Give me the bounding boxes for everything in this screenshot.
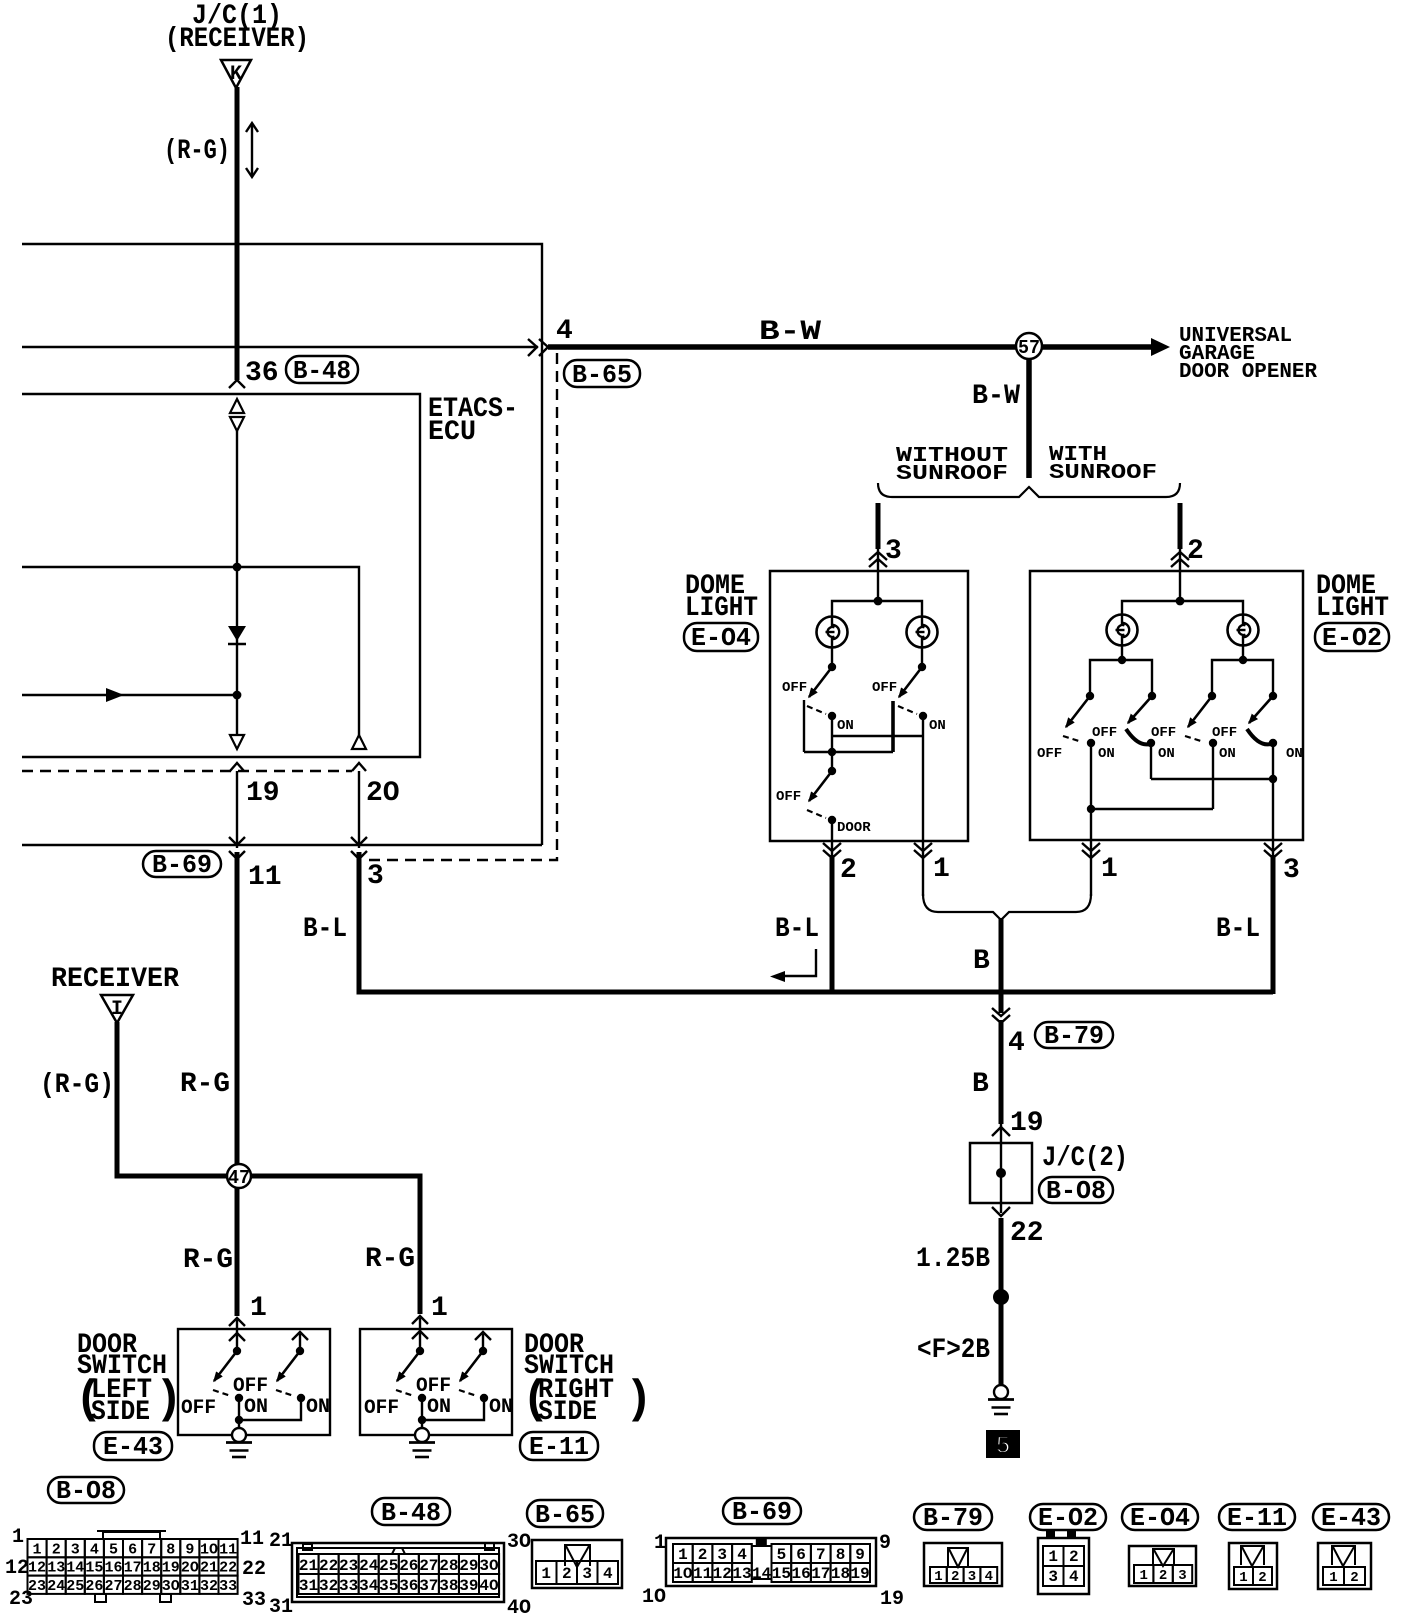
connector B-65 label [527, 1500, 603, 1527]
entry chevrons pin 3 E-04 [869, 552, 887, 567]
svg-text:1: 1 [32, 1541, 41, 1558]
wire lamp left to contact [831, 646, 833, 667]
wire R-G thick vertical from J/C(1) [235, 87, 240, 380]
svg-text:19: 19 [880, 1588, 904, 1611]
bracket joining pin1 wires [923, 894, 1091, 920]
svg-text:33: 33 [242, 1589, 266, 1612]
connector B-69 label [723, 1498, 801, 1524]
svg-text:E-O2: E-O2 [1038, 1503, 1098, 1533]
svg-text:B: B [973, 946, 990, 977]
switch arm second pole [277, 1351, 300, 1381]
direction elbow arrow [784, 949, 816, 976]
svg-text:1: 1 [678, 1546, 688, 1564]
svg-text:31: 31 [269, 1596, 293, 1616]
svg-text:): ) [625, 1374, 653, 1426]
exit chevrons pin 2 E-04 [823, 843, 841, 858]
svg-text:2: 2 [52, 1541, 61, 1558]
svg-text:1: 1 [250, 1293, 267, 1324]
svg-text:B-O8: B-O8 [56, 1476, 116, 1506]
door switch contact [828, 767, 836, 775]
connector E-02 body [1038, 1538, 1089, 1594]
svg-text:31: 31 [181, 1578, 199, 1595]
bidirectional arrow symbol [251, 124, 253, 176]
svg-text:3O: 3O [479, 1557, 499, 1575]
svg-text:OFF: OFF [1151, 725, 1176, 741]
svg-text:57: 57 [1018, 337, 1040, 359]
connector B-48 label [372, 1498, 450, 1525]
svg-text:18: 18 [831, 1565, 850, 1583]
svg-text:21: 21 [269, 1530, 293, 1553]
svg-text:B-79: B-79 [1044, 1021, 1104, 1051]
svg-text:7: 7 [147, 1541, 156, 1558]
diode D1 [228, 626, 246, 641]
ETACS output triangle up at pin 20 [352, 735, 366, 749]
svg-text:B-48: B-48 [293, 356, 351, 386]
connector I triangle receiver [101, 995, 133, 1023]
connector E-02 label [1030, 1504, 1106, 1530]
node splice dot [993, 1289, 1009, 1305]
svg-text:ON: ON [1158, 746, 1175, 762]
svg-text:12: 12 [28, 1560, 46, 1577]
node 47 splice circle [227, 1164, 251, 1188]
wire B down to J/C(2) [999, 1020, 1004, 1124]
svg-text:3: 3 [1283, 855, 1300, 886]
svg-text:SIDE: SIDE [538, 1397, 597, 1428]
lamp bulb right E-04 [907, 617, 938, 648]
node ON contact left [828, 712, 836, 720]
svg-text:19: 19 [246, 778, 280, 809]
svg-text:K: K [230, 63, 242, 86]
svg-text:6: 6 [796, 1546, 806, 1564]
svg-text:1: 1 [934, 1569, 942, 1585]
svg-text:36: 36 [399, 1577, 418, 1595]
svg-text:OFF: OFF [181, 1397, 216, 1420]
svg-text:47: 47 [228, 1167, 250, 1189]
wire B-W thick to garage door opener [548, 344, 1155, 350]
wire R-G thick down from pin 11 [235, 852, 240, 1316]
svg-text:ON: ON [1098, 746, 1115, 762]
connector label E-02 [1315, 623, 1389, 651]
svg-text:I: I [111, 998, 123, 1021]
connector E-43 label [1313, 1504, 1389, 1530]
connector E-11 body [1229, 1543, 1277, 1589]
svg-text:B-48: B-48 [381, 1498, 441, 1528]
svg-text:24: 24 [47, 1578, 65, 1595]
svg-text:1: 1 [933, 854, 950, 885]
wire lamp right to contact [921, 646, 923, 667]
svg-text:25: 25 [379, 1557, 398, 1575]
svg-text:1O: 1O [673, 1565, 693, 1583]
node ON contact right [919, 712, 927, 720]
exit chevron pin 22 [992, 1207, 1010, 1216]
svg-text:ON: ON [244, 1396, 268, 1419]
switch arm S1 [1066, 696, 1090, 727]
svg-text:OFF: OFF [776, 789, 801, 805]
svg-text:4: 4 [737, 1546, 747, 1564]
svg-text:34: 34 [359, 1577, 379, 1595]
svg-text:19: 19 [1010, 1108, 1044, 1139]
node DOOR contact [828, 816, 836, 824]
page reference box 5 [986, 1430, 1020, 1458]
svg-text:22: 22 [319, 1557, 338, 1575]
node 57 splice circle [1016, 333, 1042, 359]
svg-text:3: 3 [582, 1565, 592, 1583]
chevron at ETACS pin 36 [229, 380, 245, 388]
dome light E-02 box [1030, 571, 1303, 840]
svg-text:14: 14 [752, 1565, 772, 1583]
svg-text:11: 11 [219, 1541, 237, 1558]
svg-text:1O: 1O [642, 1586, 666, 1609]
connector label E-43 [94, 1432, 172, 1460]
ground symbol [988, 1385, 1014, 1414]
entry chevrons pin 2 E-02 [1171, 552, 1189, 567]
switch arm main [214, 1351, 237, 1381]
connector B-08 label [48, 1477, 124, 1503]
svg-text:ON: ON [1286, 746, 1303, 762]
svg-text:4: 4 [556, 316, 573, 347]
svg-text:ON: ON [427, 1396, 451, 1419]
svg-text:27: 27 [104, 1578, 122, 1595]
svg-text:DOOR OPENER: DOOR OPENER [1179, 361, 1317, 384]
dome light E-04 box [770, 571, 968, 841]
svg-text:E-O2: E-O2 [1322, 623, 1382, 653]
wire B-W thick vertical drop [1026, 347, 1032, 478]
wire horizontal to B-65 pin 4 [22, 346, 538, 348]
wire to ground [238, 1398, 240, 1428]
brace split symbol [878, 483, 1180, 497]
wire ON1/ON3 to pin 1 [1090, 743, 1092, 840]
second pole chevron [292, 1332, 308, 1340]
svg-text:16: 16 [791, 1565, 810, 1583]
svg-text:13: 13 [47, 1560, 65, 1577]
svg-text:22: 22 [242, 1558, 266, 1581]
lamp bulb right E-02 [1228, 615, 1259, 646]
wire lamp feed split [832, 601, 922, 618]
wire entry to contact [236, 1329, 238, 1351]
connector label B-65 [564, 360, 640, 387]
svg-text:6: 6 [128, 1541, 137, 1558]
svg-text:B-65: B-65 [572, 360, 632, 390]
svg-text:2O: 2O [181, 1560, 199, 1577]
entry chevrons door switch left pin 1 [229, 1318, 245, 1326]
second pole chevron [475, 1332, 491, 1340]
svg-text:3: 3 [885, 536, 902, 567]
connector B-69 body [666, 1538, 876, 1586]
svg-text:1: 1 [12, 1526, 24, 1549]
svg-text:1: 1 [1239, 1570, 1247, 1586]
svg-text:B-79: B-79 [923, 1503, 983, 1533]
crossing chevrons pin 11 [229, 837, 245, 845]
svg-text:OFF: OFF [782, 680, 807, 696]
dashed ETACS connector boundary [22, 770, 352, 772]
svg-text:21: 21 [299, 1557, 318, 1575]
svg-text:3O: 3O [507, 1531, 531, 1554]
svg-text:17: 17 [811, 1565, 830, 1583]
wire thin through J/C(2) [1000, 1122, 1002, 1213]
svg-text:ON: ON [1219, 746, 1236, 762]
svg-text:E-43: E-43 [103, 1432, 163, 1462]
svg-text:J/C(2): J/C(2) [1042, 1143, 1128, 1174]
connector E-04 body [1129, 1546, 1196, 1586]
wire ON contacts to pin1 [831, 716, 833, 771]
ground symbol door switch left [226, 1428, 252, 1457]
wire pin 1 E-04 down [922, 841, 924, 896]
switch arm second pole [460, 1351, 483, 1381]
svg-text:<F>2B: <F>2B [917, 1335, 990, 1366]
svg-text:8: 8 [166, 1541, 175, 1558]
wire stub with sunroof [1178, 503, 1183, 549]
wire to ground [421, 1398, 423, 1428]
svg-text:2: 2 [1258, 1570, 1266, 1586]
svg-text:2: 2 [840, 855, 857, 886]
svg-text:29: 29 [143, 1578, 161, 1595]
wire internal horizontal to pin 20 branch [22, 567, 359, 735]
svg-text:3: 3 [717, 1546, 727, 1564]
connector B-79 body [924, 1543, 1002, 1586]
svg-text:1O: 1O [200, 1541, 218, 1558]
svg-text:4O: 4O [507, 1597, 531, 1616]
svg-text:SUNROOF: SUNROOF [1049, 462, 1157, 485]
wire B-L thick from pin 3 to bus [359, 852, 1273, 992]
svg-text:23: 23 [9, 1588, 33, 1611]
switch arm S2 with thick curve [1128, 696, 1152, 723]
switch arm left lamp [809, 667, 832, 697]
svg-text:R-G: R-G [365, 1244, 415, 1275]
svg-text:8: 8 [836, 1546, 846, 1564]
svg-text:21: 21 [200, 1560, 218, 1577]
node junction dot [233, 691, 242, 700]
svg-text:1: 1 [431, 1293, 448, 1324]
svg-text:1: 1 [1139, 1568, 1147, 1584]
svg-text:B-W: B-W [759, 317, 821, 348]
svg-text:32: 32 [319, 1577, 338, 1595]
ETACS-ECU box [22, 394, 420, 757]
wire pin 19 vertical [236, 771, 238, 848]
svg-text:31: 31 [299, 1577, 318, 1595]
J/C(2) box [970, 1143, 1032, 1203]
svg-text:15: 15 [85, 1560, 103, 1577]
wire stub without sunroof [876, 503, 881, 549]
wire B-69 boundary horizontal [22, 844, 542, 846]
wire lamp feed split [1122, 601, 1243, 616]
svg-text:5: 5 [995, 1431, 1011, 1461]
svg-text:E-O4: E-O4 [1130, 1503, 1190, 1533]
door switch right side box E-11 [360, 1329, 512, 1435]
wire pin 1 E-02 down [1090, 840, 1092, 896]
exit chevrons pin 1 E-02 [1082, 843, 1100, 858]
pin 20 chevron [352, 763, 366, 771]
svg-text:R-G: R-G [183, 1245, 233, 1276]
svg-text:24: 24 [359, 1557, 379, 1575]
svg-text:B-69: B-69 [732, 1497, 792, 1527]
svg-text:33: 33 [339, 1577, 358, 1595]
wire pin 2 to B-L bus [831, 841, 833, 858]
svg-text:ON: ON [306, 1396, 330, 1419]
svg-text:1: 1 [1048, 1548, 1058, 1566]
connector E-11 label [1219, 1504, 1295, 1530]
svg-text:18: 18 [143, 1560, 161, 1577]
svg-text:16: 16 [104, 1560, 122, 1577]
ETACS input triangle down [230, 417, 244, 431]
wire switch common link [803, 700, 805, 752]
svg-text:LIGHT: LIGHT [1316, 593, 1389, 624]
svg-text:11: 11 [693, 1565, 712, 1583]
svg-text:B-L: B-L [303, 914, 347, 945]
svg-text:3: 3 [968, 1569, 976, 1585]
svg-text:23: 23 [339, 1557, 358, 1575]
svg-text:1: 1 [654, 1532, 666, 1555]
svg-text:35: 35 [379, 1577, 398, 1595]
pin 19 chevron [230, 763, 244, 771]
svg-text:OFF: OFF [364, 1397, 399, 1420]
wire lamp right to split [1242, 644, 1244, 660]
dashed wire from B-65 pin 4 down and left [364, 353, 557, 860]
svg-text:1: 1 [1101, 854, 1118, 885]
wire ON2/ON4 to pin 3 [1150, 743, 1152, 779]
svg-text:2O: 2O [366, 778, 400, 809]
ETACS output triangle down at pin 19 [230, 735, 244, 749]
exit chevrons pin 1 E-04 [914, 843, 932, 858]
svg-text:36: 36 [245, 358, 279, 389]
connector B-79 label [914, 1504, 992, 1530]
wire horizontal L1 to right loop [22, 244, 542, 845]
connector label E-04 [684, 623, 758, 651]
svg-text:3: 3 [1178, 1568, 1186, 1584]
wire pin 3 to B-L bus [1272, 840, 1274, 858]
svg-text:13: 13 [732, 1565, 751, 1583]
svg-text:4: 4 [1069, 1568, 1079, 1586]
svg-text:RECEIVER: RECEIVER [51, 964, 179, 995]
svg-text:OFF: OFF [1212, 725, 1237, 741]
svg-text:B-69: B-69 [152, 850, 212, 880]
svg-text:9: 9 [879, 1532, 891, 1555]
svg-text:25: 25 [66, 1578, 84, 1595]
wire B thick from bracket through bus [999, 918, 1004, 1013]
svg-text:2: 2 [698, 1546, 708, 1564]
wire pin2 into dome light E-02 [1179, 549, 1181, 601]
entry chevrons door switch right pin 1 [412, 1316, 428, 1324]
svg-text:2: 2 [562, 1565, 572, 1583]
connector B-65 body [532, 1540, 622, 1588]
svg-text:11: 11 [248, 862, 282, 893]
svg-text:OFF: OFF [233, 1375, 268, 1398]
svg-text:2: 2 [1187, 536, 1204, 567]
connector B-48 body [292, 1543, 504, 1602]
lamp bulb left E-04 [817, 617, 848, 648]
node junction dot [233, 563, 242, 572]
svg-text:OFF: OFF [416, 1375, 451, 1398]
svg-text:ON: ON [489, 1396, 513, 1419]
connector label B-79 [1035, 1022, 1113, 1048]
wire receiver R-G to splice 47 [117, 1022, 227, 1176]
svg-text:5: 5 [109, 1541, 118, 1558]
svg-text:OFF: OFF [1092, 725, 1117, 741]
svg-text:11: 11 [240, 1528, 264, 1551]
switch arm S3 [1188, 696, 1212, 727]
svg-text:26: 26 [85, 1578, 103, 1595]
svg-text:15: 15 [772, 1565, 791, 1583]
node top junction [874, 597, 883, 606]
svg-text:4O: 4O [479, 1577, 499, 1595]
svg-text:E-11: E-11 [529, 1432, 589, 1462]
svg-text:1.25B: 1.25B [916, 1244, 990, 1275]
exit chevrons B-79 pin 4 [992, 1008, 1010, 1023]
svg-text:19: 19 [162, 1560, 180, 1577]
svg-text:32: 32 [200, 1578, 218, 1595]
wire pin3 into dome light E-04 [877, 549, 879, 601]
svg-text:(R-G): (R-G) [164, 136, 230, 167]
connector label E-11 [520, 1432, 598, 1460]
wire internal ETACS vertical [236, 431, 238, 735]
svg-text:): ) [155, 1374, 183, 1426]
svg-text:1: 1 [1329, 1570, 1337, 1586]
svg-text:1: 1 [541, 1565, 551, 1583]
svg-text:3: 3 [367, 861, 384, 892]
svg-text:2: 2 [1069, 1548, 1079, 1566]
svg-text:SIDE: SIDE [91, 1397, 150, 1428]
connector label B-08 [1039, 1177, 1113, 1203]
connector K triangle (J/C(1) receiver) [221, 60, 251, 88]
svg-text:R-G: R-G [180, 1069, 230, 1100]
svg-text:14: 14 [66, 1560, 84, 1577]
svg-text:9: 9 [855, 1546, 865, 1564]
svg-text:28: 28 [439, 1557, 458, 1575]
wire DOOR contact to pin 2 [831, 820, 833, 841]
ETACS input triangle up [230, 399, 244, 413]
svg-text:OFF: OFF [1037, 746, 1062, 762]
svg-text:B-L: B-L [1216, 914, 1260, 945]
svg-text:28: 28 [124, 1578, 142, 1595]
door switch left side box E-43 [178, 1329, 330, 1435]
svg-text:(R-G): (R-G) [40, 1070, 114, 1101]
svg-text:17: 17 [124, 1560, 142, 1577]
svg-text:B-O8: B-O8 [1046, 1176, 1106, 1206]
svg-text:2: 2 [1350, 1570, 1358, 1586]
svg-text:(RECEIVER): (RECEIVER) [165, 24, 309, 55]
svg-text:LIGHT: LIGHT [685, 593, 758, 624]
switch arm door position [809, 771, 832, 801]
svg-text:5: 5 [777, 1546, 787, 1564]
connector label B-48 [286, 356, 358, 383]
svg-text:ON: ON [929, 718, 946, 734]
svg-text:12: 12 [713, 1565, 732, 1583]
svg-text:33: 33 [219, 1578, 237, 1595]
svg-text:E-O4: E-O4 [691, 623, 751, 653]
svg-text:39: 39 [459, 1577, 478, 1595]
svg-text:3: 3 [1048, 1568, 1058, 1586]
svg-text:12: 12 [5, 1557, 29, 1580]
lamp bulb left E-02 [1107, 615, 1138, 646]
connector E-43 body [1318, 1543, 1371, 1589]
svg-text:3O: 3O [162, 1578, 180, 1595]
svg-text:B-65: B-65 [535, 1500, 595, 1530]
svg-text:SUNROOF: SUNROOF [896, 463, 1008, 486]
wire lamp left to split [1121, 644, 1123, 660]
wire pin 20 vertical [358, 771, 360, 848]
switch arm main [397, 1351, 420, 1381]
svg-text:E-11: E-11 [1227, 1503, 1287, 1533]
wire internal horizontal with arrow [22, 694, 237, 696]
svg-text:4: 4 [90, 1541, 99, 1558]
wire R-G to right door switch [251, 1176, 420, 1314]
svg-text:7: 7 [816, 1546, 826, 1564]
svg-text:22: 22 [219, 1560, 237, 1577]
svg-text:ECU: ECU [428, 417, 476, 448]
svg-text:38: 38 [439, 1577, 458, 1595]
svg-text:22: 22 [1010, 1218, 1044, 1249]
svg-text:9: 9 [185, 1541, 194, 1558]
svg-text:E-43: E-43 [1321, 1503, 1381, 1533]
